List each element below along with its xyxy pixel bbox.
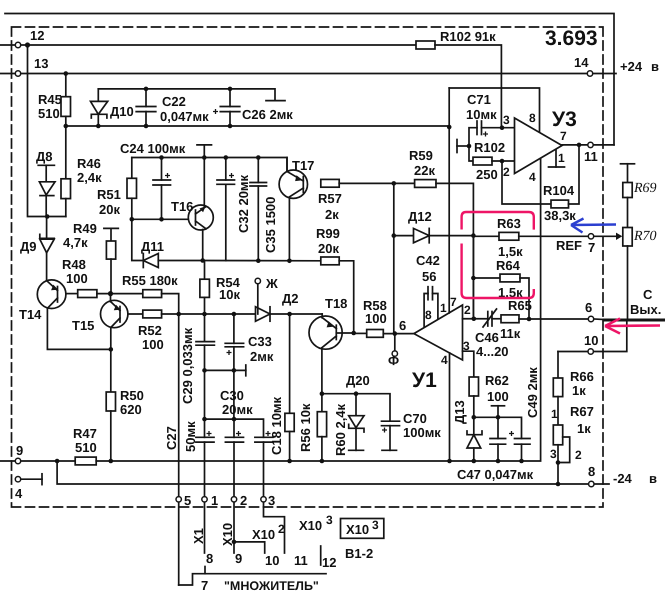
svg-text:У1: У1 [412, 369, 437, 392]
svg-text:С70: С70 [403, 411, 427, 426]
op-amp U3 [515, 118, 563, 174]
svg-text:R64: R64 [496, 258, 521, 273]
svg-text:11: 11 [294, 553, 308, 568]
node F test point [394, 334, 396, 351]
capacitor C24 polarized [161, 158, 163, 181]
svg-text:12: 12 [30, 28, 44, 43]
resistor R102 91k body [416, 41, 435, 49]
wire terminal 3 below [264, 502, 285, 553]
svg-text:Х10: Х10 [299, 518, 322, 533]
wire line A y157.5 [132, 158, 287, 171]
chassis stub at T16 collector [203, 145, 205, 158]
resistor R50 [110, 349, 112, 392]
junction dots bottom [232, 540, 237, 545]
svg-text:9: 9 [16, 443, 23, 458]
variable capacitor C46 [487, 312, 489, 327]
resistor R55 [143, 290, 162, 298]
svg-text:13: 13 [34, 56, 48, 71]
svg-text:8: 8 [588, 464, 595, 479]
svg-text:9: 9 [235, 551, 242, 566]
svg-text:250: 250 [476, 167, 498, 182]
capacitor C42 on pins 8/1 [427, 287, 429, 300]
node pin 9 terminal and R47 [0, 460, 15, 462]
resistor R62 [469, 377, 478, 396]
svg-text:2к: 2к [325, 207, 339, 222]
junction dots mid section [55, 233, 524, 463]
svg-text:С29 0,033мк: С29 0,033мк [180, 327, 195, 404]
svg-text:1: 1 [551, 407, 558, 421]
resistor R60 [321, 394, 323, 412]
svg-text:R45: R45 [38, 92, 62, 107]
svg-text:22к: 22к [414, 163, 435, 178]
svg-text:R62: R62 [485, 373, 509, 388]
svg-text:С24 100мк: С24 100мк [120, 141, 186, 156]
chassis stub above R69 [621, 163, 635, 165]
svg-text:20к: 20к [318, 241, 339, 256]
potentiometer R70 [623, 228, 632, 247]
resistor R47 [75, 457, 96, 465]
svg-text:620: 620 [120, 402, 142, 417]
svg-text:3.693: 3.693 [545, 27, 598, 50]
chassis stub at R102/C71 [456, 140, 458, 153]
resistor R63 [473, 235, 499, 237]
svg-text:2мк: 2мк [250, 349, 274, 364]
capacitor C33 polarized [233, 314, 235, 343]
svg-text:Д13: Д13 [452, 400, 467, 424]
svg-text:R67: R67 [570, 404, 594, 419]
svg-text:100мк: 100мк [403, 425, 441, 440]
resistor R46 [65, 126, 67, 179]
chassis stub at R62 node [497, 406, 499, 418]
wire T14 base to R48 [66, 293, 78, 295]
wire top frame line to output of U3 [5, 14, 614, 145]
wire pin12 to R102 line [21, 44, 417, 46]
svg-text:в: в [649, 471, 657, 486]
wire U3 output [562, 144, 588, 146]
magenta highlight box around R63/R64 [462, 212, 660, 334]
wire 12 tick [320, 546, 322, 565]
transistor T18 [309, 316, 342, 349]
svg-text:R51: R51 [97, 187, 121, 202]
svg-text:5: 5 [184, 493, 191, 508]
svg-text:С35 1500: С35 1500 [263, 197, 278, 253]
svg-text:В1-2: В1-2 [345, 546, 373, 561]
svg-text:4: 4 [529, 170, 536, 184]
svg-text:4: 4 [15, 486, 23, 501]
svg-text:1: 1 [211, 493, 218, 508]
diode D11 [142, 254, 144, 268]
svg-text:2: 2 [278, 522, 285, 536]
svg-text:11: 11 [584, 149, 598, 164]
wire T14 collector [47, 308, 110, 349]
svg-text:Т14: Т14 [19, 307, 42, 322]
svg-text:3: 3 [463, 339, 470, 353]
svg-text:2: 2 [575, 448, 582, 462]
wire terminal 5 below [178, 502, 180, 585]
text labels U3/right [466, 92, 661, 486]
chassis stub C29/C33 [205, 369, 246, 371]
svg-text:R56 10к: R56 10к [298, 403, 313, 452]
diode D12 [393, 183, 395, 235]
op-amp U1 [414, 305, 463, 360]
svg-text:510: 510 [38, 106, 60, 121]
resistor R49 with stub [104, 227, 118, 229]
svg-text:100: 100 [365, 311, 387, 326]
svg-text:в: в [651, 59, 659, 74]
svg-text:R102: R102 [474, 140, 505, 155]
capacitor C18 polarized [255, 436, 273, 438]
resistor R104 [551, 200, 569, 208]
resistor R69 [623, 183, 632, 198]
resistor R64 [473, 277, 500, 279]
blue arrow at REF [571, 219, 616, 233]
svg-text:11к: 11к [500, 326, 521, 341]
text labels mid [15, 209, 540, 501]
svg-text:4,7к: 4,7к [63, 235, 88, 250]
capacitor C30 polarized [225, 436, 243, 438]
svg-text:6: 6 [585, 300, 592, 315]
wire U1 pin2 to C46 [463, 318, 487, 320]
svg-text:R104: R104 [543, 183, 575, 198]
svg-text:2: 2 [464, 303, 471, 317]
node pin 13 terminal [0, 73, 16, 75]
open terminal circles [15, 42, 592, 76]
wire collector node to C70 [322, 394, 390, 422]
svg-text:10: 10 [265, 553, 279, 568]
svg-text:С: С [643, 287, 653, 302]
svg-text:Д12: Д12 [408, 209, 432, 224]
svg-text:Д20: Д20 [346, 373, 370, 388]
resistor R52 [128, 313, 143, 315]
svg-text:3: 3 [503, 113, 510, 127]
wire U1 pin4 down [449, 353, 451, 461]
wire R51 node down to D11 [132, 219, 144, 260]
wire R67 wiper return [558, 437, 570, 463]
svg-text:8: 8 [425, 308, 432, 322]
capacitor C70 polarized with chassis bar [382, 420, 400, 422]
svg-text:Д10: Д10 [110, 104, 134, 119]
svg-text:С49 2мк: С49 2мк [525, 367, 540, 418]
svg-text:10мк: 10мк [466, 107, 497, 122]
svg-text:50мк: 50мк [183, 421, 198, 452]
wire +24V rail pin13 to pin14 [21, 73, 588, 75]
svg-text:R57: R57 [318, 191, 342, 206]
wire terminal 1 below [204, 502, 206, 553]
svg-text:У3: У3 [552, 108, 577, 131]
svg-text:8: 8 [206, 551, 213, 566]
capacitor (unmarked) at node [497, 417, 499, 438]
svg-text:С22: С22 [162, 94, 186, 109]
svg-text:3: 3 [268, 493, 275, 508]
svg-text:12: 12 [322, 555, 336, 570]
wire line B y260.5 [203, 260, 321, 262]
wire R99 to T18 base [339, 261, 354, 333]
box X10^3 B1-2 [341, 519, 384, 539]
wire terminal 5 line [178, 314, 180, 497]
wire upper jumper y89 with chassis stub [98, 89, 275, 101]
wire output line C vyh [594, 318, 604, 321]
transistor T16 [188, 205, 213, 230]
svg-text:R48: R48 [62, 257, 86, 272]
svg-text:Ж: Ж [265, 276, 278, 291]
resistor R45 [65, 74, 67, 97]
node pin 4 stub [21, 478, 42, 480]
capacitor C27 polarized [196, 436, 214, 438]
wire -24V rail [57, 461, 589, 484]
wire R63 node vertical [472, 236, 474, 319]
svg-text:100: 100 [487, 389, 509, 404]
wire REF to R70 wiper [594, 235, 616, 237]
svg-text:R70: R70 [633, 229, 657, 244]
wire pin14 to border [593, 73, 616, 75]
svg-text:1к: 1к [577, 421, 591, 436]
svg-text:20мк: 20мк [222, 402, 253, 417]
svg-text:100: 100 [66, 271, 88, 286]
svg-text:56: 56 [422, 269, 436, 284]
capacitor C26 polarized [229, 89, 231, 107]
wire pin10 line [558, 351, 588, 353]
svg-text:7: 7 [450, 295, 457, 309]
wire U1 pin3 to R62 [463, 351, 474, 377]
svg-text:7: 7 [201, 578, 208, 593]
text labels bottom [184, 493, 379, 593]
wire left rail from pin 12 down [28, 45, 48, 217]
svg-text:R49: R49 [73, 221, 97, 236]
svg-text:С47 0,047мк: С47 0,047мк [457, 467, 534, 482]
capacitor C29 [204, 314, 206, 342]
svg-text:С27: С27 [164, 426, 179, 450]
wire R102 to U3 pin3 [435, 45, 501, 128]
svg-text:R55 180к: R55 180к [122, 273, 178, 288]
svg-text:Д11: Д11 [141, 239, 164, 254]
svg-text:С33: С33 [248, 334, 272, 349]
svg-text:С46: С46 [475, 330, 499, 345]
svg-text:Х10: Х10 [220, 523, 235, 546]
svg-text:10: 10 [584, 333, 598, 348]
svg-text:С32 20мк: С32 20мк [236, 174, 251, 233]
svg-text:С26 2мк: С26 2мк [242, 107, 293, 122]
svg-text:-24: -24 [613, 471, 633, 486]
svg-text:R47: R47 [73, 426, 97, 441]
svg-text:R52: R52 [138, 323, 162, 338]
svg-text:1,5к: 1,5к [498, 244, 523, 259]
polarity plus marks [165, 109, 514, 436]
transistor T17 [279, 170, 307, 198]
svg-text:R60 2,4к: R60 2,4к [333, 403, 348, 456]
capacitor C49 polarized [515, 438, 531, 440]
resistor R51 [131, 158, 133, 179]
text labels top [20, 27, 659, 256]
svg-text:"МНОЖИТЕЛЬ": "МНОЖИТЕЛЬ" [224, 579, 319, 593]
resistor R59 [415, 180, 436, 188]
wire branch X10^2 [234, 542, 265, 553]
wire U3 pin2 feedback to R104 [502, 161, 551, 204]
wire caps top rail y419 [205, 419, 264, 437]
wire U1 pin7 rail from U3 box [448, 88, 450, 313]
wire mnozhitel bottom line [179, 574, 326, 585]
terminals mid [15, 458, 20, 482]
resistor R57 [321, 179, 339, 187]
zener D9 [46, 217, 48, 239]
capacitor C32 polarized [225, 158, 227, 181]
svg-text:R63: R63 [497, 216, 521, 231]
svg-text:100: 100 [142, 337, 164, 352]
svg-text:10к: 10к [219, 287, 240, 302]
diode D8 with free stub [38, 164, 54, 166]
resistor R54 [204, 262, 206, 279]
svg-text:4: 4 [441, 353, 448, 367]
ground pin1 of U3 [555, 150, 557, 167]
svg-text:Вых.: Вых. [630, 302, 661, 317]
wire terminal 2 below [233, 502, 235, 553]
node Zh terminal [255, 278, 260, 283]
junction dots top section [25, 42, 396, 263]
svg-text:510: 510 [75, 440, 97, 455]
svg-text:Х1: Х1 [191, 528, 206, 544]
svg-text:3: 3 [326, 513, 333, 527]
zener D13 [473, 417, 475, 434]
zener D20 with chassis bar [355, 394, 357, 416]
svg-text:R66: R66 [570, 369, 594, 384]
svg-text:R69: R69 [633, 181, 657, 196]
wire R46 bottom to D8 node [47, 216, 66, 218]
svg-text:С30: С30 [220, 388, 244, 403]
svg-text:R50: R50 [120, 388, 144, 403]
svg-text:4...20: 4...20 [476, 344, 509, 359]
svg-text:8: 8 [529, 111, 536, 125]
svg-text:6: 6 [399, 318, 406, 333]
svg-text:7: 7 [560, 129, 567, 143]
svg-text:Т16: Т16 [171, 199, 193, 214]
svg-text:Ф: Ф [388, 353, 399, 368]
svg-text:2: 2 [240, 493, 247, 508]
svg-text:R99: R99 [316, 226, 340, 241]
svg-text:R102 91к: R102 91к [440, 29, 496, 44]
wire common bus y461 [179, 159, 541, 461]
svg-text:20к: 20к [99, 202, 120, 217]
diode D2 [256, 307, 271, 321]
svg-text:+24: +24 [620, 59, 643, 74]
svg-text:2: 2 [503, 165, 510, 179]
wire T18 base to R58 node [336, 332, 353, 334]
terminals right [588, 142, 594, 487]
capacitor C35 [257, 158, 259, 183]
svg-text:0,047мк: 0,047мк [160, 109, 209, 124]
capacitor C22 [145, 89, 147, 107]
capacitor C71 polarized [469, 128, 477, 146]
resistor R66 [557, 352, 559, 379]
wire R59 down to R63 node [436, 183, 473, 318]
svg-text:Д9: Д9 [20, 239, 37, 254]
svg-text:Т15: Т15 [72, 318, 94, 333]
wire D12 node down to U1 pin6 [393, 236, 395, 334]
wire T18 collector [321, 348, 323, 394]
wire R62 node to C49 [474, 417, 522, 438]
wire supply bus y126 [66, 125, 449, 127]
transistor T14 [37, 280, 66, 309]
svg-text:REF: REF [556, 238, 582, 253]
svg-text:Т17: Т17 [292, 158, 314, 173]
svg-text:3: 3 [372, 518, 379, 532]
svg-text:Х10: Х10 [346, 522, 369, 537]
resistor R102 250 [469, 146, 473, 161]
svg-text:1: 1 [440, 301, 447, 315]
dashed enclosure border [12, 27, 604, 507]
terminals bottom [176, 497, 266, 502]
svg-text:С42: С42 [416, 253, 440, 268]
svg-text:3: 3 [550, 447, 557, 461]
svg-text:Х10: Х10 [252, 527, 275, 542]
junction dots U3/right [447, 125, 581, 487]
resistor R56 [289, 314, 291, 413]
resistor R48 [78, 290, 97, 298]
svg-text:С18 10мк: С18 10мк [269, 396, 284, 455]
zener D10 [97, 89, 99, 102]
svg-text:7: 7 [588, 240, 595, 255]
svg-text:38,3к: 38,3к [544, 208, 576, 223]
svg-text:Д8: Д8 [36, 149, 53, 164]
svg-text:1к: 1к [572, 383, 586, 398]
svg-text:R59: R59 [409, 148, 433, 163]
svg-text:2,4к: 2,4к [77, 170, 102, 185]
magenta arrow at C vyh [605, 319, 660, 334]
svg-text:Д2: Д2 [282, 291, 299, 306]
transistor T15 [101, 300, 128, 327]
svg-text:1: 1 [558, 151, 565, 165]
resistor R99 [321, 257, 339, 265]
svg-text:Т18: Т18 [325, 296, 347, 311]
wire U3 bias box [449, 88, 539, 132]
resistor R58 [354, 332, 367, 334]
svg-text:С71: С71 [467, 92, 491, 107]
node pin 12 terminal [0, 44, 16, 46]
wire T16 base line [132, 218, 189, 220]
resistor R65 [501, 315, 519, 323]
potentiometer R67 [553, 425, 562, 445]
svg-text:R46: R46 [77, 156, 101, 171]
svg-text:14: 14 [574, 55, 589, 70]
